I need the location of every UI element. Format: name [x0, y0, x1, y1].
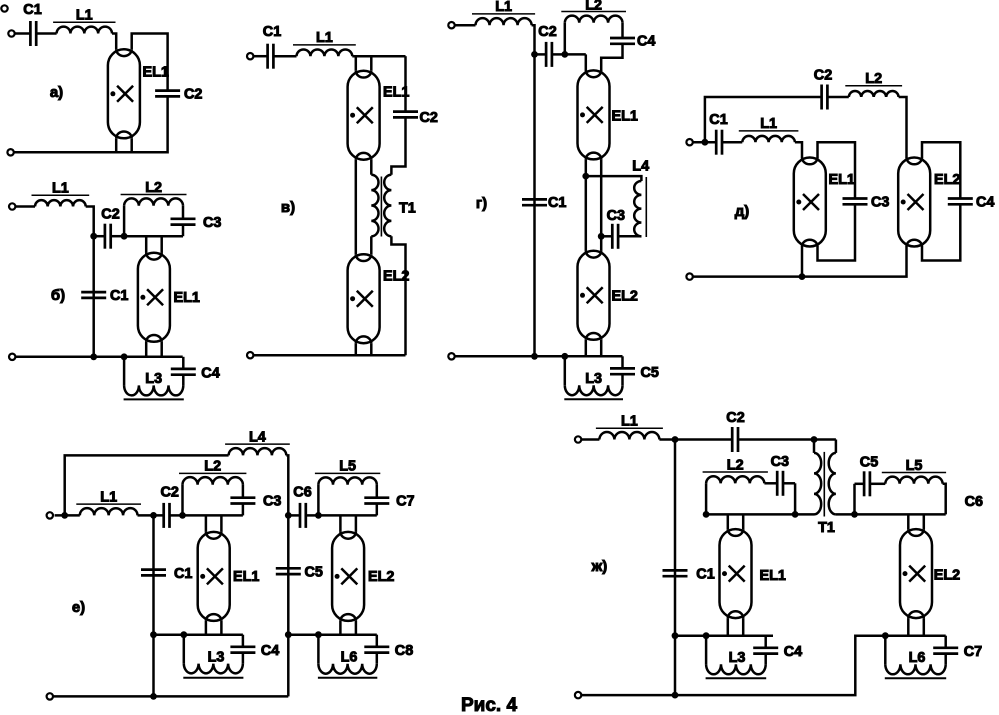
svg-text:L5: L5	[339, 459, 356, 475]
svg-text:L2: L2	[865, 71, 882, 87]
svg-text:C7: C7	[396, 494, 414, 510]
svg-text:C4: C4	[784, 644, 802, 660]
svg-text:L1: L1	[52, 181, 69, 197]
svg-text:EL1: EL1	[829, 172, 855, 188]
svg-text:L1: L1	[760, 116, 777, 132]
svg-text:L1: L1	[76, 8, 93, 24]
svg-text:е): е)	[72, 599, 85, 616]
svg-text:L3: L3	[729, 650, 746, 666]
svg-text:C3: C3	[771, 454, 789, 470]
svg-text:а): а)	[50, 84, 63, 101]
svg-text:L2: L2	[145, 180, 162, 196]
svg-text:C3: C3	[871, 195, 889, 211]
svg-text:C2: C2	[814, 68, 832, 84]
svg-text:д): д)	[735, 203, 750, 220]
svg-text:L2: L2	[727, 457, 744, 473]
svg-text:EL1: EL1	[143, 65, 169, 81]
svg-text:L1: L1	[621, 414, 638, 430]
svg-text:C1: C1	[263, 24, 281, 40]
svg-text:C3: C3	[263, 494, 281, 510]
svg-text:б): б)	[51, 287, 65, 304]
svg-text:C3: C3	[607, 208, 625, 224]
svg-text:EL1: EL1	[233, 569, 259, 585]
svg-text:C1: C1	[174, 566, 192, 582]
svg-text:C2: C2	[101, 207, 119, 223]
svg-text:L6: L6	[909, 650, 926, 666]
svg-text:EL1: EL1	[612, 109, 638, 125]
svg-text:L2: L2	[204, 459, 221, 475]
svg-text:C2: C2	[726, 410, 744, 426]
svg-text:Рис. 4: Рис. 4	[461, 695, 517, 715]
svg-text:EL2: EL2	[934, 172, 960, 188]
svg-text:EL1: EL1	[174, 290, 200, 306]
svg-text:L3: L3	[145, 371, 162, 387]
svg-text:L1: L1	[100, 489, 117, 505]
svg-text:C4: C4	[976, 195, 994, 211]
svg-text:C1: C1	[709, 112, 727, 128]
svg-text:C2: C2	[538, 24, 556, 40]
svg-text:T1: T1	[399, 201, 416, 217]
svg-text:L6: L6	[341, 650, 358, 666]
svg-text:L4: L4	[632, 159, 649, 175]
svg-text:C2: C2	[184, 87, 202, 103]
svg-text:C4: C4	[261, 643, 279, 659]
svg-text:C2: C2	[420, 110, 438, 126]
svg-text:C1: C1	[548, 195, 566, 211]
svg-text:C8: C8	[395, 643, 413, 659]
svg-text:г): г)	[476, 195, 487, 212]
svg-text:C3: C3	[203, 215, 221, 231]
svg-text:L1: L1	[495, 0, 512, 15]
svg-text:C2: C2	[160, 485, 178, 501]
svg-text:ж): ж)	[591, 558, 608, 575]
svg-text:C5: C5	[641, 365, 659, 381]
svg-text:C6: C6	[965, 494, 983, 510]
svg-text:C1: C1	[110, 288, 128, 304]
svg-text:L2: L2	[585, 0, 602, 14]
svg-text:L1: L1	[316, 30, 333, 46]
svg-text:T1: T1	[818, 520, 835, 536]
svg-text:C1: C1	[696, 567, 714, 583]
svg-text:C6: C6	[293, 485, 311, 501]
svg-text:EL2: EL2	[612, 289, 638, 305]
svg-text:EL2: EL2	[368, 569, 394, 585]
svg-text:L4: L4	[249, 429, 266, 445]
svg-text:L3: L3	[585, 371, 602, 387]
svg-text:C7: C7	[964, 644, 982, 660]
svg-text:C4: C4	[637, 34, 655, 50]
svg-text:EL2: EL2	[934, 568, 960, 584]
svg-text:EL1: EL1	[760, 568, 786, 584]
svg-text:C1: C1	[23, 2, 41, 18]
svg-text:C5: C5	[305, 565, 323, 581]
svg-text:в): в)	[281, 199, 295, 216]
svg-text:L5: L5	[906, 458, 923, 474]
svg-text:C4: C4	[201, 365, 219, 381]
svg-text:L3: L3	[208, 650, 225, 666]
svg-text:C5: C5	[860, 455, 878, 471]
